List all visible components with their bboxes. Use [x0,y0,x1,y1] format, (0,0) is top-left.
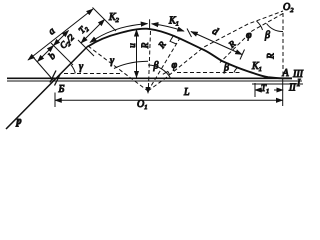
svg-text:φ: φ [172,60,178,71]
track line I middle [7,80,302,82]
T1 dimension [254,83,256,97]
svg-text:β: β [223,63,229,74]
svg-text:a: a [47,26,58,38]
extension stroke M1 [51,43,73,65]
svg-text:O2: O2 [283,2,294,14]
radius O2 to d-line dashed [220,14,283,63]
apex tick [149,19,151,29]
svg-text:u: u [127,43,137,48]
dimension line d [191,32,242,55]
arc beta-phi at W [148,65,170,78]
main bypass thick curve [88,29,292,79]
svg-text:γ: γ [79,62,84,73]
svg-text:I: I [296,78,301,89]
dimension line a [28,9,93,60]
dimension line T2 [81,20,105,44]
gamma arc near O1 [114,61,148,68]
P1 extension tick [78,40,94,56]
K1 dimension arc [152,24,184,31]
svg-text:p: p [16,116,22,127]
radius O1-P1 dashed [88,46,148,91]
K2 dimension arc [90,24,148,43]
horizontal dashed to beta2 [177,72,240,74]
dimension line C2/2 [54,31,69,46]
svg-text:R: R [140,42,150,49]
extension stroke at tangent end [93,8,117,32]
extension stroke to Б [33,57,54,81]
svg-text:d: d [210,26,220,39]
track line II lower right [252,83,303,85]
tangent line p through Б [6,46,88,129]
radius O1-P2 dashed [148,38,180,91]
svg-text:R: R [156,39,168,50]
angle arc at O2 [267,24,284,32]
svg-text:γ: γ [110,56,115,67]
angle gamma arc at Б [71,65,75,74]
dashed horizontal from Б [64,73,122,75]
svg-text:K1: K1 [251,61,262,73]
vertical dashed O2 to A [282,13,284,79]
hash marks at Б [50,71,56,83]
u dimension vertical [136,30,138,78]
svg-text:L: L [183,87,190,98]
svg-text:T2: T2 [77,23,91,37]
O1 convergence arrow [146,87,151,94]
right angle mark at P2 [170,35,176,44]
ext tick at K1 end [187,29,192,38]
svg-text:b: b [47,51,58,62]
svg-text:A: A [282,68,290,79]
dimension line b [38,46,54,62]
L dimension [54,93,56,108]
track line III upper thick [7,77,292,79]
svg-text:T1: T1 [261,83,269,95]
right angle mark at W [163,71,170,75]
svg-text:K2: K2 [108,12,120,24]
svg-text:φ: φ [246,30,252,41]
line O1-O2 dashed [148,11,283,91]
extension below A [282,79,284,106]
svg-text:R: R [266,53,276,60]
svg-text:Б: Б [58,84,65,95]
vertical radius R dashed to O1 [148,31,150,91]
svg-text:β: β [153,61,159,72]
svg-text:K1: K1 [168,16,179,28]
svg-text:II: II [288,83,296,94]
svg-text:β: β [264,30,270,41]
beta2 arc [234,68,238,73]
